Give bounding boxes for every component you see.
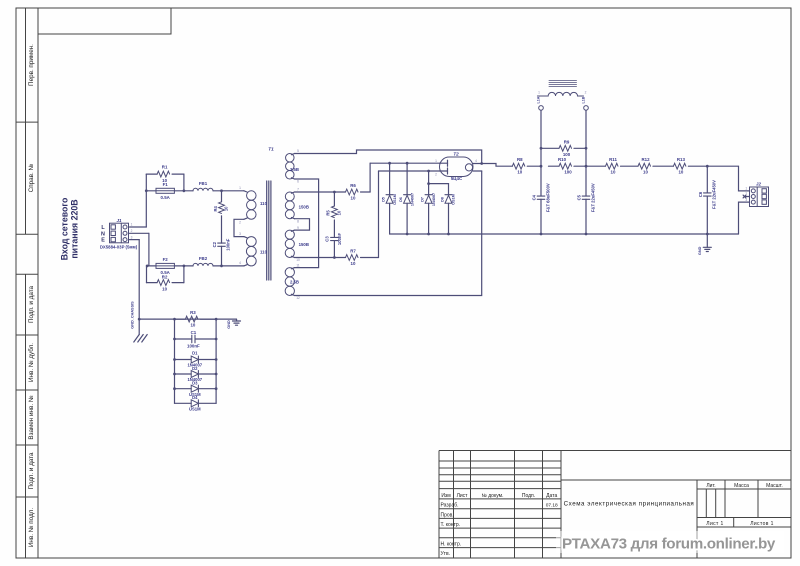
svg-text:150В: 150В — [299, 205, 309, 210]
svg-text:Н. контр.: Н. контр. — [441, 542, 462, 548]
diode D5 — [389, 163, 391, 195]
svg-text:Вход сетевого: Вход сетевого — [59, 197, 69, 260]
svg-text:2: 2 — [239, 221, 241, 225]
wire S1 bottom to S4 top — [295, 179, 319, 268]
svg-text:4: 4 — [239, 261, 241, 265]
fuse F2 — [156, 263, 174, 268]
svg-text:R8: R8 — [517, 157, 523, 162]
chassis ground symbol — [138, 319, 140, 334]
svg-text:3: 3 — [131, 235, 133, 239]
diode D3 — [175, 388, 192, 390]
wire R1/F1 right junction — [183, 174, 185, 191]
svg-text:Масшт.: Масшт. — [766, 483, 783, 489]
T1 secondary winding S1 (2.5V) — [291, 154, 294, 155]
svg-text:1N4007: 1N4007 — [432, 193, 436, 206]
T2 plate 2 — [440, 170, 448, 172]
resistor R4 (snubber) — [221, 191, 223, 202]
svg-text:R11: R11 — [609, 157, 617, 162]
svg-text:Утв.: Утв. — [441, 551, 451, 557]
wire S1 top to rectifier B+ node — [295, 150, 482, 164]
wire S2 bottom to S3 top — [295, 219, 310, 230]
resistor R5 (bleeder) — [333, 192, 335, 206]
svg-text:Подп. и дата: Подп. и дата — [28, 452, 35, 490]
svg-text:Взамен инв. №: Взамен инв. № — [28, 395, 35, 439]
svg-text:T2: T2 — [453, 151, 459, 156]
wire B+ rail to J2 pin1 — [707, 166, 749, 191]
ground rail — [390, 233, 739, 235]
rectifier tube T2 5Ц4С — [440, 157, 474, 177]
svg-text:5: 5 — [297, 149, 299, 153]
svg-text:F2: F2 — [163, 257, 169, 262]
diode D8 — [445, 194, 452, 196]
svg-text:2: 2 — [435, 172, 437, 176]
capacitor C6 — [706, 166, 708, 193]
svg-text:3: 3 — [239, 232, 241, 236]
T2 filament — [465, 164, 472, 171]
resistor R6 — [346, 189, 359, 195]
svg-text:R3: R3 — [190, 310, 196, 315]
svg-text:F&T 68uF500V: F&T 68uF500V — [545, 183, 550, 212]
svg-text:Т. контр.: Т. контр. — [441, 522, 461, 528]
wire R7 up to anode rail 2 — [378, 171, 380, 258]
diode D4 — [175, 402, 192, 404]
resistor R9 — [541, 147, 559, 149]
svg-text:GND: GND — [698, 246, 702, 255]
svg-text:150В: 150В — [299, 242, 309, 247]
svg-text:Перв. примен.: Перв. примен. — [28, 44, 35, 86]
svg-text:2: 2 — [745, 192, 747, 196]
svg-text:Инв. № дубл.: Инв. № дубл. — [27, 343, 35, 382]
svg-text:J1: J1 — [116, 218, 122, 223]
svg-text:10: 10 — [162, 287, 167, 292]
svg-text:100: 100 — [564, 170, 572, 175]
svg-text:DX5884-03P (5мм): DX5884-03P (5мм) — [100, 244, 138, 249]
J2 pin2 no-connect — [745, 196, 750, 198]
resistor R1 — [157, 171, 170, 177]
ferrite bead FB1 — [193, 188, 213, 191]
svg-text:2: 2 — [131, 229, 133, 233]
svg-text:3: 3 — [745, 198, 747, 202]
svg-text:D8: D8 — [440, 197, 444, 202]
svg-text:10: 10 — [611, 170, 616, 175]
svg-text:1: 1 — [239, 186, 241, 190]
svg-text:2.5В: 2.5В — [290, 167, 299, 172]
svg-text:2.5В: 2.5В — [290, 280, 299, 285]
svg-text:US1M: US1M — [393, 194, 397, 205]
svg-text:РТАХА73 для forum.onliner.by: РТАХА73 для forum.onliner.by — [562, 536, 776, 553]
ground symbol GND — [706, 234, 708, 247]
svg-text:F1: F1 — [163, 182, 169, 187]
svg-text:питания 220В: питания 220В — [69, 199, 79, 258]
wire flag L1B down through C5 to ground rail — [585, 110, 587, 196]
svg-text:D1: D1 — [192, 351, 198, 356]
svg-text:1: 1 — [131, 223, 133, 227]
wire R6 up to anode rail 1 — [369, 163, 371, 192]
svg-text:12: 12 — [296, 296, 300, 300]
svg-text:L1A: L1A — [537, 96, 541, 103]
capacitor C1 — [175, 338, 192, 340]
resistor R3 — [185, 316, 198, 322]
svg-text:GND: GND — [227, 320, 231, 329]
fuse F1 — [156, 188, 174, 193]
svg-text:R5: R5 — [325, 210, 330, 216]
svg-text:US1M: US1M — [452, 194, 456, 205]
T1 core — [266, 181, 268, 280]
svg-text:C4: C4 — [532, 194, 537, 200]
svg-text:FB2: FB2 — [199, 256, 208, 261]
svg-text:2: 2 — [585, 91, 587, 95]
svg-text:Подп. и дата: Подп. и дата — [28, 285, 35, 323]
svg-text:Лист 1: Лист 1 — [706, 521, 723, 527]
svg-text:F&T 22uF450V: F&T 22uF450V — [590, 183, 595, 212]
svg-text:11: 11 — [296, 263, 300, 267]
svg-text:10: 10 — [190, 323, 195, 328]
svg-text:1: 1 — [538, 91, 540, 95]
net flag L1B — [584, 106, 589, 111]
svg-text:D7: D7 — [420, 197, 424, 202]
wire main B+ rail to R11 — [586, 165, 605, 167]
svg-text:110: 110 — [260, 250, 268, 255]
connector J2 — [750, 187, 769, 207]
svg-text:C2: C2 — [212, 241, 217, 247]
T1 secondary winding S3 (150V) — [291, 230, 294, 231]
svg-text:9: 9 — [297, 226, 299, 230]
svg-text:5Ц4С: 5Ц4С — [451, 176, 463, 181]
svg-text:10: 10 — [296, 258, 300, 262]
svg-text:07.18: 07.18 — [546, 503, 558, 509]
svg-text:0.5A: 0.5A — [161, 195, 171, 200]
ground symbol GND (chassis net) — [236, 319, 238, 321]
wire S3 bottom to R7 — [295, 257, 346, 259]
svg-text:100nF: 100nF — [226, 238, 231, 251]
svg-text:D4: D4 — [192, 395, 198, 400]
resistor R7 — [346, 255, 359, 261]
svg-text:Масса: Масса — [734, 483, 749, 489]
svg-text:C1: C1 — [191, 330, 197, 335]
resistor R8 — [512, 163, 525, 169]
net flag L1A — [539, 106, 544, 111]
svg-text:100nF: 100nF — [337, 233, 342, 246]
wire J1 pin E down to chassis rail — [130, 239, 140, 241]
svg-text:D5: D5 — [381, 197, 385, 202]
T2 filament pins — [473, 163, 482, 165]
svg-text:110: 110 — [260, 201, 268, 206]
resistor R10 — [585, 165, 588, 168]
svg-text:Справ. №: Справ. № — [28, 163, 35, 192]
diode D7 — [425, 194, 432, 196]
svg-text:L1B: L1B — [582, 96, 586, 103]
svg-text:Листов 1: Листов 1 — [750, 521, 774, 527]
svg-text:R2: R2 — [162, 274, 168, 279]
svg-text:R4: R4 — [213, 205, 218, 211]
resistor R2 — [157, 280, 170, 286]
wire S2 top to R6 — [295, 191, 346, 193]
capacitor C3 — [333, 220, 335, 237]
T1 primary link — [234, 219, 244, 236]
title block texts — [441, 483, 783, 557]
wire chassis rail — [139, 318, 236, 320]
left margin box labels — [27, 44, 35, 547]
svg-text:100nF: 100nF — [187, 343, 200, 348]
diode D6 — [406, 163, 408, 195]
wire J1 pin L to fuse block — [130, 226, 147, 228]
svg-text:Схема электрическая принципиал: Схема электрическая принципиальная — [564, 501, 695, 508]
svg-text:1: 1 — [435, 159, 437, 163]
svg-text:Лист: Лист — [457, 493, 469, 499]
svg-text:Разраб.: Разраб. — [441, 503, 459, 509]
wire S4 bottom to tube filament return — [295, 171, 482, 296]
svg-text:J2: J2 — [756, 181, 761, 186]
T2 plate 1 — [440, 162, 448, 164]
svg-text:10: 10 — [643, 170, 648, 175]
svg-text:1: 1 — [745, 187, 747, 191]
svg-text:R1: R1 — [162, 164, 168, 169]
svg-text:F&T 22uF450V: F&T 22uF450V — [712, 180, 717, 209]
svg-text:10: 10 — [678, 170, 683, 175]
svg-text:R7: R7 — [350, 249, 356, 254]
svg-text:E: E — [101, 238, 105, 244]
svg-text:R10: R10 — [558, 157, 567, 162]
svg-text:Инв. № подл.: Инв. № подл. — [28, 508, 35, 547]
svg-text:6: 6 — [297, 180, 299, 184]
svg-text:Изм: Изм — [441, 493, 451, 499]
svg-text:10: 10 — [336, 210, 341, 215]
svg-text:7: 7 — [297, 188, 299, 192]
svg-text:4: 4 — [475, 159, 477, 163]
choke L1 — [537, 81, 583, 97]
svg-text:10: 10 — [351, 196, 356, 201]
wire ground rail to J2 pin3 — [739, 202, 750, 234]
wire J1 pin N down to fuse F2 — [130, 232, 149, 234]
T1 secondary winding S4 (2.5V) — [291, 268, 294, 269]
svg-text:1N4007: 1N4007 — [410, 193, 414, 206]
resistor R11 — [606, 163, 619, 169]
T1 primary winding 1 (110V) — [244, 191, 247, 192]
svg-text:US1M: US1M — [189, 406, 201, 411]
svg-text:10: 10 — [351, 261, 356, 266]
anode rail 2 — [379, 170, 440, 172]
title block — [439, 451, 791, 558]
svg-text:D6: D6 — [399, 197, 403, 202]
connector J1 — [110, 223, 129, 243]
watermark — [556, 531, 784, 553]
svg-text:Пров.: Пров. — [441, 512, 454, 518]
svg-text:8: 8 — [297, 219, 299, 223]
ferrite bead FB2 — [193, 263, 213, 266]
svg-text:C6: C6 — [698, 191, 703, 197]
resistor R13 — [673, 163, 686, 169]
snubber ladder rails — [175, 318, 186, 320]
svg-text:N: N — [101, 231, 105, 237]
wire B+ to R8 — [482, 164, 513, 167]
wire flag L1A down through C4 to ground rail — [540, 110, 542, 196]
svg-text:GND_CHASSIS: GND_CHASSIS — [131, 301, 135, 329]
T1 secondary winding S2 (150V) — [291, 192, 294, 193]
svg-text:Лит.: Лит. — [706, 483, 715, 489]
svg-text:R6: R6 — [350, 183, 356, 188]
svg-text:FB1: FB1 — [199, 181, 208, 186]
capacitor C5 — [582, 195, 590, 197]
svg-text:D3: D3 — [192, 381, 198, 386]
capacitor C2 — [221, 216, 223, 243]
diode D2 — [175, 373, 192, 375]
svg-text:R9: R9 — [564, 140, 570, 145]
svg-text:№ докум.: № докум. — [482, 493, 504, 499]
svg-text:Подп.: Подп. — [522, 493, 535, 499]
svg-text:R12: R12 — [641, 157, 650, 162]
T1 primary winding 2 (110V) — [244, 237, 247, 238]
svg-text:D2: D2 — [192, 366, 198, 371]
svg-text:R13: R13 — [677, 157, 686, 162]
svg-text:C5: C5 — [577, 194, 582, 200]
svg-text:10: 10 — [517, 169, 522, 174]
svg-text:C3: C3 — [325, 236, 330, 242]
svg-text:T1: T1 — [268, 147, 274, 153]
resistor R12 — [638, 163, 651, 169]
capacitor C4 — [537, 195, 545, 197]
diode D1 — [175, 359, 192, 361]
wire rail2 to D7 D8 — [428, 171, 430, 195]
svg-text:10: 10 — [224, 206, 229, 211]
svg-text:Дата: Дата — [546, 493, 557, 499]
anode rail 1 — [370, 162, 439, 164]
